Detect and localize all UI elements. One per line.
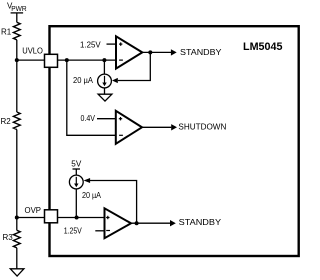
svg-text:20 µA: 20 µA [82,191,102,200]
svg-text:PWR: PWR [11,6,26,13]
resistor R2 [1,112,21,130]
internal ground arrow [98,94,112,101]
signal STANDBY (bottom) [170,218,222,227]
value 1.25V reference (bottom) [64,226,105,235]
wire R2 to R3 [16,130,18,231]
svg-text:5V: 5V [71,159,82,168]
wire UVLO pin to comparator minus input [58,59,117,61]
wire divider to OVP pin [17,217,45,219]
op-amp U3 OVP comparator [105,208,132,238]
wire U1 output to current source control [118,52,151,80]
wire I2 to OVP net [75,189,77,218]
wire UVLO net down to 0.4V comparator [67,60,116,135]
wire U1 output [142,51,171,53]
svg-text:STANDBY: STANDBY [179,218,222,227]
svg-text:R1: R1 [1,27,12,36]
wire VPWR to R1 [16,13,18,22]
op-amp U2 shutdown comparator [116,111,142,144]
wire U3 output to I2 control [90,181,137,224]
svg-text:1.25V: 1.25V [80,41,101,50]
supply 5V terminal [71,159,82,169]
wire U3 output [131,222,170,224]
node divider tap OVP [15,216,19,220]
wire I1 to internal ground [104,88,106,94]
resistor R3 [3,230,21,248]
value 0.4V reference [81,114,116,123]
svg-text:0.4V: 0.4V [81,114,96,123]
wire divider to UVLO pin [17,59,45,61]
wire R1 to R2 [16,40,18,112]
node U1 output [148,50,152,54]
svg-text:STANDBY: STANDBY [180,48,222,57]
ground [10,269,24,276]
IC body LM5045 [50,26,299,256]
signal STANDBY (top) [171,48,222,57]
node UVLO net branch [65,58,69,62]
pin OVP [25,206,58,223]
svg-text:SHUTDOWN: SHUTDOWN [178,122,226,131]
op-amp U1 UVLO comparator [116,36,142,68]
current source I1 20uA [73,74,111,88]
svg-text:OVP: OVP [25,206,42,215]
wire R3 to ground [16,248,18,269]
svg-text:1.25V: 1.25V [64,226,83,235]
resistor R1 [1,22,20,40]
wire UVLO tap down to I1 [103,60,105,74]
svg-text:LM5045: LM5045 [243,41,283,53]
svg-text:R2: R2 [1,117,12,126]
supply terminal VPWR [7,1,27,13]
node OVP current source tap [75,216,79,220]
svg-text:20 µA: 20 µA [73,76,94,85]
svg-text:UVLO: UVLO [22,46,43,55]
svg-text:R3: R3 [3,233,14,242]
current source I2 20uA [69,175,101,200]
arrow into current source I1 [112,78,118,83]
node U3 output [135,221,139,225]
node divider tap UVLO [15,58,19,62]
wire OVP pin to comparator plus input [58,217,105,219]
pin UVLO [22,46,57,67]
arrow into current source I2 [84,178,91,183]
node UVLO current source tap [102,58,106,62]
wire 5V to I2 [75,169,77,175]
value 1.25V reference (top) [80,41,116,50]
signal SHUTDOWN [171,122,226,131]
wire U2 output [142,126,171,128]
